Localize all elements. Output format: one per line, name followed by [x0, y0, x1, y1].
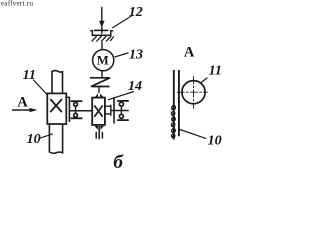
svg-text:10: 10: [208, 134, 222, 149]
spring coil on column edge: [171, 106, 175, 138]
force arrowhead: [99, 21, 105, 28]
ground hatching under damper: [92, 36, 114, 41]
clamp box 11: [47, 93, 66, 124]
crosshair centrelines: [177, 76, 208, 108]
eccentric circle 11 (right view): [182, 81, 205, 104]
svg-text:A: A: [17, 95, 28, 111]
X in box 14: [95, 106, 103, 116]
short screw right of box 14: [111, 110, 129, 112]
leader for label 11 (left): [33, 80, 47, 95]
leader for label 12: [112, 16, 131, 28]
horizontal screw between box 11 and box 14: [69, 110, 92, 112]
svg-text:eaflvert.ru: eaflvert.ru: [1, 0, 33, 8]
spring link: [90, 78, 110, 87]
column edge lines (right view): [174, 70, 179, 140]
clevis bracket right of box 14: [105, 105, 111, 116]
svg-text:10: 10: [27, 132, 41, 147]
leader for label 10 (right): [178, 129, 206, 139]
screw nut bowtie above box 14: [95, 93, 104, 97]
damper 12 cylinder: [90, 31, 113, 36]
svg-text:M: M: [97, 54, 109, 68]
column 10 upper part: [52, 71, 63, 94]
screw tail below box 14: [96, 126, 102, 139]
gear box 14: [92, 98, 105, 125]
svg-text:11: 11: [209, 64, 222, 79]
svg-text:12: 12: [129, 5, 143, 20]
svg-text:б: б: [113, 152, 124, 173]
leader for label 14: [108, 92, 134, 100]
view arrow A (left): [12, 95, 38, 113]
rod below motor: [101, 71, 103, 78]
X in clamp box 11: [51, 100, 62, 112]
rod from spring to screw box: [98, 87, 100, 94]
column 10 lower part: [49, 124, 62, 153]
rod from damper to motor: [101, 42, 103, 50]
svg-text:14: 14: [128, 79, 142, 94]
svg-text:A: A: [184, 44, 195, 60]
roller clamp pair left of screw: [65, 97, 82, 122]
leader for label 10 (left): [40, 134, 53, 139]
leader for label 11 (right): [201, 78, 208, 83]
leader for label 13: [115, 53, 129, 57]
damper 12 piston: [94, 29, 108, 31]
screw nut bowtie below box 14: [94, 126, 104, 130]
roller clamp pair right of box 14: [114, 97, 129, 124]
motor 13 circle: [93, 50, 114, 71]
force rod at top: [101, 7, 103, 34]
svg-text:13: 13: [129, 47, 143, 62]
